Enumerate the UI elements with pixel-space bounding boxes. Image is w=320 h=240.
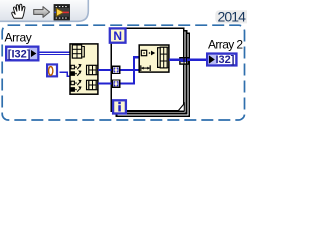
svg-text:[I32]: [I32] — [8, 48, 31, 60]
svg-text:N: N — [113, 29, 122, 43]
svg-text:Array 2: Array 2 — [208, 37, 243, 51]
svg-text:Array: Array — [5, 31, 32, 45]
svg-text:I32]: I32] — [216, 54, 235, 66]
svg-text:2014: 2014 — [218, 9, 247, 25]
